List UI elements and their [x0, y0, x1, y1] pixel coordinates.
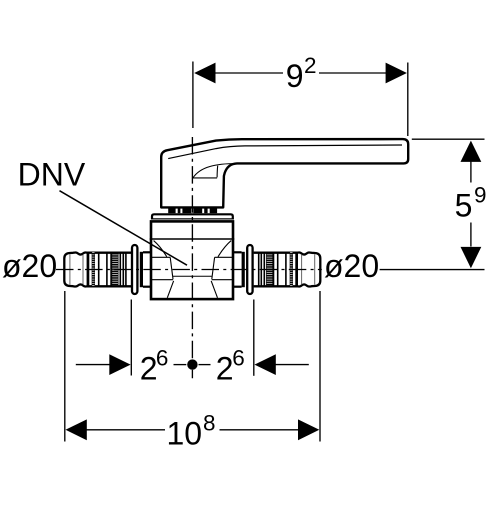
vertical centerline: [191, 137, 193, 378]
svg-text:2: 2: [304, 53, 317, 78]
body internal right: [211, 241, 234, 298]
dark band: [140, 252, 143, 287]
handle stem serrations: [168, 208, 217, 213]
dimension 108 (bottom): [65, 291, 320, 452]
svg-text:ø20: ø20: [2, 248, 57, 284]
svg-text:8: 8: [203, 411, 216, 436]
dimension 92 (top): [193, 53, 408, 136]
body internal bore line: [173, 275, 212, 277]
svg-text:5: 5: [455, 188, 473, 224]
center dot: [187, 359, 197, 369]
svg-text:2: 2: [216, 351, 234, 387]
valve body: [150, 221, 235, 299]
body internal left: [151, 241, 174, 298]
svg-text:ø20: ø20: [324, 248, 379, 284]
lever handle: [161, 139, 408, 207]
right pipe sleeve (mirror): [234, 245, 321, 294]
dimension 59 (right): [412, 139, 487, 268]
svg-text:9: 9: [286, 58, 304, 94]
svg-text:9: 9: [474, 183, 487, 208]
svg-text:2: 2: [140, 351, 158, 387]
svg-text:6: 6: [232, 346, 245, 371]
stem flange: [151, 214, 234, 219]
horizontal centerline: [56, 269, 485, 271]
svg-text:DNV: DNV: [18, 156, 86, 192]
DNV leader line: [60, 191, 188, 266]
dimension 26-26 (middle bottom): [76, 300, 309, 387]
crimp ring: [132, 245, 137, 294]
left pipe sleeve: [64, 245, 151, 294]
svg-text:6: 6: [156, 346, 169, 371]
svg-text:10: 10: [167, 416, 203, 452]
step to body: [143, 251, 151, 253]
